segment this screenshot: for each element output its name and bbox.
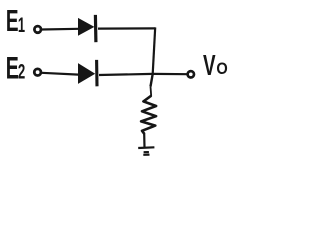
terminal E1 <box>34 26 41 33</box>
label VO subscript O <box>216 60 227 78</box>
wire corner down to junction <box>153 27 156 74</box>
wire D1 to corner <box>98 27 155 29</box>
label E1 <box>6 5 25 39</box>
wire junction to output terminal <box>153 73 188 75</box>
node junction <box>151 74 153 87</box>
terminal E2 <box>34 69 41 76</box>
svg-text:E: E <box>6 5 19 39</box>
diode D1 <box>78 15 96 42</box>
wire resistor to ground <box>143 134 146 148</box>
diode D2 <box>78 60 97 86</box>
wire junction down to resistor <box>150 87 153 97</box>
svg-text:1: 1 <box>18 13 25 37</box>
wire D2 to junction <box>99 74 153 75</box>
svg-text:2: 2 <box>18 59 25 83</box>
svg-text:V: V <box>203 50 216 82</box>
wire E1 to D1 <box>42 28 79 31</box>
svg-text:O: O <box>216 60 227 78</box>
resistor R <box>141 96 156 135</box>
label E2 <box>6 50 26 86</box>
terminal VO <box>188 71 194 77</box>
ground <box>138 147 154 155</box>
svg-text:E: E <box>6 50 19 86</box>
label VO letter V <box>203 50 216 82</box>
wire E2 to D2 <box>42 73 79 75</box>
